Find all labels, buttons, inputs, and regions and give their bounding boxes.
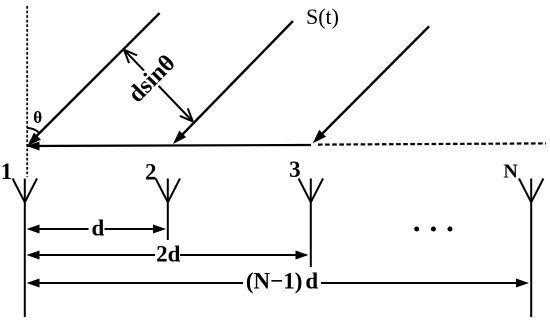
svg-text:1: 1 (1, 159, 13, 184)
svg-text:θ: θ (33, 108, 42, 127)
svg-text:2: 2 (145, 159, 157, 184)
svg-text:d: d (92, 216, 105, 241)
svg-text:3: 3 (289, 157, 301, 182)
svg-text:(N−1)d: (N−1)d (246, 269, 319, 294)
svg-text:S(t): S(t) (306, 4, 339, 29)
svg-text:2d: 2d (156, 242, 181, 267)
svg-text:N: N (503, 161, 518, 183)
